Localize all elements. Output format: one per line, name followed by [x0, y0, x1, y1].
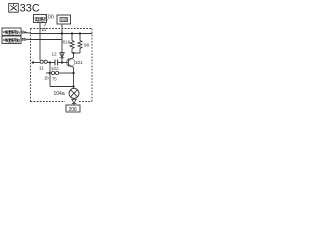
node dot on border — [32, 61, 34, 63]
lamp L (circle with cross) — [69, 87, 79, 99]
svg-text:98: 98 — [84, 43, 90, 48]
power rail 1 — [31, 33, 93, 35]
svg-text:11: 11 — [39, 66, 44, 71]
svg-text:2b: 2b — [22, 37, 28, 42]
connector circles lower — [51, 71, 58, 74]
svg-text:12: 12 — [52, 52, 58, 57]
node dot emitter/lower wire — [72, 72, 74, 74]
svg-text:104a: 104a — [54, 91, 65, 97]
wire from box A down — [39, 23, 41, 61]
vertical wire x50 down — [49, 63, 51, 87]
wire connector to cap — [47, 62, 55, 64]
svg-text:11: 11 — [42, 27, 47, 32]
svg-text:101: 101 — [75, 60, 83, 65]
svg-text:回路: 回路 — [61, 17, 68, 22]
bottom horizontal wire — [50, 86, 74, 88]
svg-text:816: 816 — [63, 40, 71, 45]
stub wire from L1 — [21, 32, 31, 33]
diode D1 on x62 — [60, 53, 65, 58]
resistor R right — [78, 34, 82, 54]
node dot x50 — [49, 61, 51, 63]
node dot x62 base — [61, 61, 63, 63]
svg-text:102: 102 — [51, 66, 59, 71]
svg-text:中継端子板B: 中継端子板B — [3, 37, 20, 44]
svg-text:33C: 33C — [20, 3, 40, 15]
wire to emitter — [59, 72, 74, 74]
transistor Q 101 — [66, 58, 74, 68]
stub wire from L2 — [21, 38, 31, 41]
box B (top right box) — [57, 15, 71, 24]
svg-text:206: 206 — [69, 107, 78, 113]
dashed board border — [31, 29, 93, 102]
svg-text:75: 75 — [52, 77, 57, 82]
emitter wire down — [73, 68, 75, 87]
left box L1 — [2, 28, 21, 36]
svg-text:100: 100 — [45, 15, 54, 21]
diode D2 below lamp — [72, 98, 76, 103]
leader for 100 — [45, 20, 48, 27]
box A (top supply box) — [34, 15, 47, 24]
bottom box 206 — [66, 104, 80, 113]
connector circles top — [40, 60, 47, 63]
wire from box B down — [61, 24, 63, 63]
svg-text:1b: 1b — [44, 76, 49, 81]
node dot rail1/x72 — [71, 32, 73, 34]
node dot lamp top — [72, 85, 74, 87]
node dot merge — [73, 52, 75, 54]
resistor R left — [70, 34, 74, 54]
left box L2 — [2, 36, 21, 44]
node dot rail1/x80 — [79, 32, 81, 34]
lower connector wire — [46, 72, 52, 74]
wire from border to connector — [32, 62, 41, 64]
node dot x50 lower — [49, 72, 51, 74]
figure title 図33C — [9, 4, 19, 13]
capacitor C — [55, 60, 58, 66]
node dot rail1/x62 — [61, 32, 63, 34]
merge wire — [72, 52, 80, 54]
svg-text:中継端子板A: 中継端子板A — [3, 29, 21, 36]
rail 2 — [31, 39, 63, 41]
collector wire down — [73, 53, 75, 58]
base wire — [58, 62, 69, 64]
